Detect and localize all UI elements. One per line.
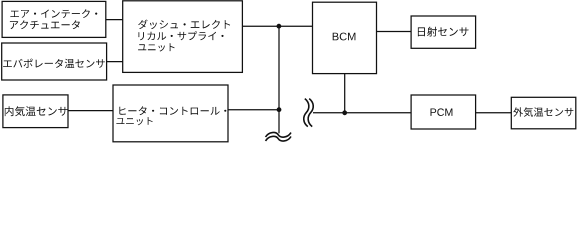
label box4 line1 [138, 20, 230, 30]
block air-intake actuator [2, 1, 106, 37]
label box1 line2 [10, 20, 80, 29]
wire PCM to outside air temp sensor [476, 112, 512, 114]
wire BCM to sun sensor [377, 31, 412, 33]
label box2 [3, 59, 105, 68]
break symbol on PCM wire (double wave) [304, 99, 309, 127]
wire actuator to dash unit [106, 19, 123, 21]
block PCM [411, 95, 476, 129]
block evaporator temp sensor [2, 43, 107, 80]
block heater control unit [113, 85, 228, 142]
wire vertical bus down to break [278, 26, 280, 133]
block dash electrical supply unit [123, 1, 243, 73]
junction dot heater wire / vertical bus [277, 107, 282, 112]
block in-car temp sensor [3, 95, 68, 128]
block BCM [313, 2, 377, 73]
label box1 line1 [10, 9, 97, 18]
wire break to PCM [313, 112, 411, 114]
label box5 line1 [119, 106, 226, 115]
label box7 [418, 27, 469, 37]
wire BCM down to PCM line [344, 74, 346, 113]
block outside air temp sensor [511, 97, 576, 129]
junction dot dash-BCM wire / vertical bus [277, 24, 282, 29]
break symbol on vertical bus (double wave) [266, 132, 292, 137]
wire heater unit to vertical bus [228, 109, 279, 111]
label box4 line3 [138, 43, 175, 51]
wire evaporator sensor to dash unit [107, 61, 123, 63]
label box3 [5, 106, 68, 116]
label BCM [333, 33, 356, 41]
label box5 line2 [116, 117, 152, 125]
junction dot BCM drop / PCM wire [342, 110, 347, 115]
label box9 [513, 107, 573, 116]
label box4 line2 [138, 31, 223, 40]
wire in-car sensor to heater unit [68, 110, 113, 112]
wire dash unit to BCM [242, 25, 312, 27]
label PCM [431, 108, 453, 116]
block sun sensor [411, 16, 476, 48]
